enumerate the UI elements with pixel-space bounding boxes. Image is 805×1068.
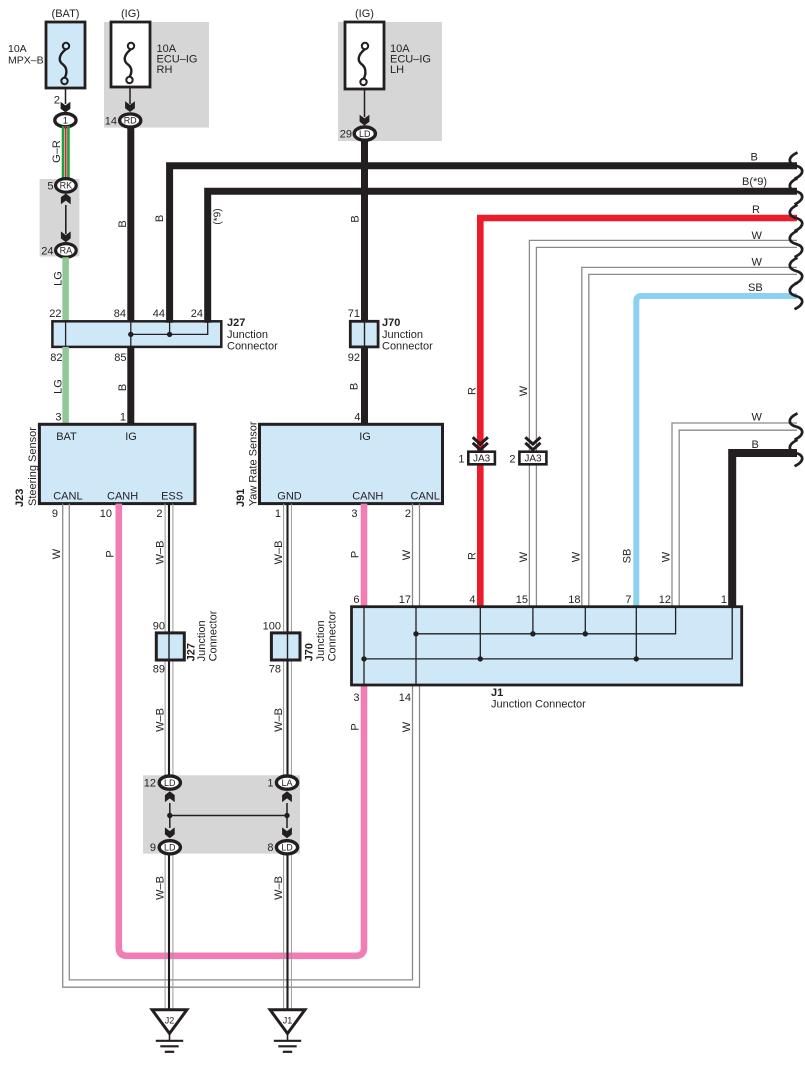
J1 bus B dots (361, 656, 366, 661)
connector oval LD (354, 127, 375, 140)
svg-text:10A: 10A (8, 43, 27, 55)
break symbol 4 (790, 231, 802, 257)
svg-text:B: B (752, 439, 759, 451)
arrow down to RA (61, 231, 71, 242)
J1 internal bus A (416, 608, 676, 634)
svg-text:3: 3 (353, 692, 359, 704)
wire down to 9LD (169, 816, 171, 829)
fuse ECU-IG RH gray panel (104, 22, 209, 128)
wire B(*9) horizontal (208, 191, 797, 322)
svg-text:44: 44 (153, 308, 165, 320)
svg-text:14: 14 (399, 692, 411, 704)
wire P loop CANH (119, 504, 364, 956)
svg-text:CANL: CANL (53, 491, 82, 503)
svg-text:Connector: Connector (227, 341, 278, 353)
break symbol 1 (790, 153, 802, 179)
svg-text:24: 24 (191, 308, 203, 320)
wire fuse3 to LD (364, 89, 366, 117)
svg-text:GND: GND (277, 491, 302, 503)
wire SB (636, 296, 797, 607)
svg-text:2: 2 (509, 453, 515, 465)
yaw rate sensor J91 box (260, 424, 443, 503)
svg-text:Connector: Connector (382, 341, 433, 353)
svg-text:2: 2 (54, 95, 60, 107)
svg-text:17: 17 (399, 594, 411, 606)
svg-text:12: 12 (144, 778, 156, 790)
svg-text:84: 84 (114, 308, 126, 320)
svg-text:W–B: W–B (155, 541, 167, 565)
connector oval 9 LD (159, 841, 180, 854)
junction connector J27 box (52, 321, 221, 347)
svg-text:J23: J23 (14, 489, 26, 507)
connector oval RK (56, 179, 77, 193)
wire LG lower (62, 347, 69, 424)
svg-text:85: 85 (114, 352, 126, 364)
svg-text:9: 9 (52, 508, 58, 520)
svg-text:J1: J1 (283, 1015, 293, 1025)
fuse 10A ECU-IG RH (IG) (111, 22, 150, 87)
svg-text:(IG): (IG) (121, 8, 140, 20)
fuse 10A ECU-IG LH (IG) (345, 22, 384, 89)
J27 internal through line B (130, 321, 132, 347)
svg-text:Yaw Rate Sensor: Yaw Rate Sensor (248, 421, 260, 506)
svg-text:9: 9 (150, 842, 156, 854)
svg-text:78: 78 (269, 664, 281, 676)
junction connector J70 small box (271, 633, 300, 660)
svg-text:RK: RK (60, 181, 73, 191)
svg-text:JA3: JA3 (473, 454, 491, 465)
wire RK-RA (65, 205, 67, 234)
svg-text:7: 7 (625, 594, 631, 606)
wire B 85 to IG (127, 347, 134, 424)
wire B LD to J70 (361, 141, 368, 322)
svg-text:MPX–B: MPX–B (8, 55, 44, 67)
svg-text:(IG): (IG) (355, 8, 374, 20)
wire W-B GND lower (283, 853, 285, 1010)
wire LD-LA bus (170, 815, 287, 817)
arrow down to 8LD (282, 827, 292, 838)
svg-text:Steering Sensor: Steering Sensor (27, 427, 39, 506)
wire down to 8LD (286, 816, 288, 829)
svg-text:W–B: W–B (273, 876, 285, 900)
svg-text:Connector: Connector (208, 610, 220, 661)
wire LG upper (62, 257, 69, 321)
svg-text:89: 89 (153, 664, 165, 676)
svg-text:Junction: Junction (227, 329, 268, 341)
break symbol 6 (790, 283, 802, 309)
svg-text:2: 2 (156, 508, 162, 520)
svg-text:15: 15 (516, 594, 528, 606)
wire fuse1 to connector 1 (65, 88, 67, 104)
svg-text:W: W (752, 412, 763, 424)
svg-text:Junction: Junction (196, 620, 208, 661)
svg-text:Junction: Junction (315, 620, 327, 661)
svg-text:CANL: CANL (411, 491, 440, 503)
J1 internal bus B (364, 608, 732, 659)
svg-text:6: 6 (353, 594, 359, 606)
break symbol 8 (790, 440, 802, 466)
steering sensor J23 box (39, 424, 195, 503)
svg-text:(*9): (*9) (213, 208, 224, 224)
svg-text:SB: SB (621, 549, 633, 564)
junction connector J27 small box (156, 633, 184, 660)
svg-text:B: B (117, 220, 129, 227)
svg-text:J91: J91 (235, 489, 247, 507)
svg-text:R: R (752, 204, 760, 216)
svg-text:71: 71 (348, 308, 360, 320)
svg-text:B: B (117, 384, 129, 391)
svg-text:18: 18 (568, 594, 580, 606)
fuse 10A MPX-B (BAT) (46, 22, 85, 88)
svg-text:3: 3 (351, 508, 357, 520)
ground J2 (152, 1010, 187, 1034)
wire B from RD (127, 127, 134, 321)
svg-text:G–R: G–R (51, 140, 63, 163)
J70 through line (364, 321, 366, 347)
svg-text:1: 1 (267, 778, 273, 790)
wire B horizontal (170, 166, 797, 323)
arrow into RD (125, 101, 135, 112)
svg-text:J2: J2 (165, 1015, 175, 1025)
arrow into connector 1 (61, 102, 71, 113)
svg-text:R: R (466, 387, 478, 395)
arrow up to RK (61, 194, 71, 205)
svg-text:2: 2 (405, 508, 411, 520)
wire fuse2 to RD (129, 87, 131, 104)
svg-text:8: 8 (267, 842, 273, 854)
wire B 92 to yaw IG (361, 347, 368, 424)
wire P yaw CANH (361, 504, 368, 607)
svg-text:BAT: BAT (56, 431, 77, 443)
svg-text:W: W (570, 551, 582, 562)
svg-text:1: 1 (721, 594, 727, 606)
junction dots LD bus (167, 813, 172, 818)
svg-text:Connector: Connector (327, 610, 339, 661)
svg-text:3: 3 (55, 412, 61, 424)
wire G-R (62, 126, 65, 180)
J1 through line P (363, 607, 365, 685)
svg-text:W: W (401, 721, 413, 732)
svg-text:RA: RA (60, 246, 73, 256)
arrow up to 1LA (282, 791, 292, 802)
svg-text:B(*9): B(*9) (742, 176, 767, 188)
wire W yaw CANL (412, 504, 414, 607)
svg-text:B: B (751, 152, 758, 164)
J1 through line W (415, 607, 417, 685)
svg-text:B: B (349, 383, 361, 390)
wire 12LD down (169, 803, 171, 816)
svg-text:LD: LD (281, 843, 293, 853)
svg-text:29: 29 (340, 129, 352, 141)
connector oval 1 LA (276, 776, 297, 789)
svg-text:22: 22 (49, 308, 61, 320)
svg-text:CANH: CANH (352, 491, 383, 503)
svg-text:(BAT): (BAT) (52, 8, 80, 20)
svg-text:82: 82 (50, 352, 62, 364)
svg-text:J70: J70 (382, 317, 400, 329)
svg-text:LD: LD (359, 129, 371, 139)
svg-text:92: 92 (348, 352, 360, 364)
svg-text:R: R (466, 552, 478, 560)
connector JA3-1 chevron (473, 437, 488, 444)
J27 internal bus (131, 322, 208, 334)
svg-text:5: 5 (47, 181, 53, 193)
connector JA3-1 box (468, 452, 495, 465)
svg-text:P: P (105, 550, 117, 557)
break symbol 5 (790, 258, 802, 284)
svg-text:90: 90 (153, 621, 165, 633)
svg-text:Junction Connector: Junction Connector (491, 699, 586, 711)
svg-text:W: W (752, 257, 763, 269)
svg-text:W–B: W–B (155, 708, 167, 732)
connector LD/LA gray panel (143, 775, 300, 853)
connector JA3-2 chevron (525, 437, 540, 444)
svg-text:J27: J27 (227, 317, 245, 329)
svg-text:W: W (752, 230, 763, 242)
junction connector J1 box (352, 607, 742, 685)
svg-text:1: 1 (275, 508, 281, 520)
svg-text:4: 4 (354, 412, 360, 424)
wire B4 (732, 453, 797, 607)
arrow up to 12LD (165, 791, 175, 802)
svg-text:1: 1 (458, 453, 464, 465)
svg-text:1: 1 (63, 115, 68, 126)
svg-text:12: 12 (659, 594, 671, 606)
J1 bus A dots (413, 631, 418, 636)
svg-text:J1: J1 (491, 687, 503, 699)
svg-text:P: P (350, 551, 362, 558)
break symbol 7 (790, 413, 802, 439)
connector oval 1 (55, 114, 76, 127)
J27 internal junction dots (128, 332, 133, 337)
svg-text:B: B (154, 215, 166, 222)
svg-text:W: W (401, 549, 413, 560)
svg-text:100: 100 (263, 621, 281, 633)
svg-text:W: W (518, 551, 530, 562)
svg-text:4: 4 (469, 594, 475, 606)
svg-text:RH: RH (157, 64, 173, 76)
svg-text:14: 14 (105, 116, 117, 128)
svg-text:LA: LA (281, 778, 292, 788)
svg-text:P: P (350, 723, 362, 730)
wire W-B ESS upper (164, 504, 166, 777)
connector oval RA (56, 244, 77, 258)
svg-text:LD: LD (164, 843, 176, 853)
svg-text:LG: LG (52, 271, 64, 286)
connector oval 12 LD (159, 776, 180, 789)
wire W-B ESS lower (164, 853, 166, 1010)
svg-text:W–B: W–B (273, 708, 285, 732)
svg-text:LG: LG (52, 379, 64, 394)
wire R (480, 218, 797, 607)
svg-text:B: B (350, 215, 362, 222)
J70s through line (287, 633, 289, 660)
J27s through line (168, 633, 170, 660)
svg-text:SB: SB (748, 282, 763, 294)
fuse ECU-IG LH gray panel (338, 22, 442, 141)
svg-text:JA3: JA3 (524, 454, 542, 465)
connector oval 8 LD (276, 841, 297, 854)
break symbol 3 (790, 205, 802, 231)
svg-text:W: W (661, 551, 673, 562)
svg-text:IG: IG (125, 431, 137, 443)
wire W2 (582, 267, 797, 606)
J27 internal through line LG (65, 321, 67, 347)
svg-text:IG: IG (359, 431, 371, 443)
svg-text:W–B: W–B (155, 876, 167, 900)
wire W-B GND upper (283, 504, 285, 777)
svg-text:LD: LD (164, 778, 176, 788)
junction connector J70 box (350, 321, 378, 347)
ground J1 (270, 1010, 305, 1034)
svg-text:RD: RD (124, 116, 137, 126)
wire W loop CANL (63, 504, 420, 988)
svg-text:CANH: CANH (107, 491, 138, 503)
connector RK/RA gray panel (40, 179, 80, 257)
svg-text:J70: J70 (304, 643, 316, 661)
svg-text:ESS: ESS (161, 491, 183, 503)
svg-text:24: 24 (41, 246, 53, 258)
wire 1LA down (286, 803, 288, 816)
wire W3 (672, 423, 797, 607)
svg-text:Junction: Junction (382, 329, 423, 341)
wire W1 (529, 240, 797, 606)
svg-text:1: 1 (120, 412, 126, 424)
connector oval RD (120, 114, 141, 127)
svg-text:W: W (518, 385, 530, 396)
arrow down to 9LD (165, 827, 175, 838)
arrow into LD (360, 115, 370, 126)
connector JA3-2 box (519, 452, 546, 465)
svg-text:LH: LH (390, 64, 404, 76)
svg-text:W–B: W–B (273, 541, 285, 565)
svg-text:W: W (51, 548, 63, 559)
svg-text:10: 10 (100, 508, 112, 520)
break symbol 2 (790, 178, 802, 204)
